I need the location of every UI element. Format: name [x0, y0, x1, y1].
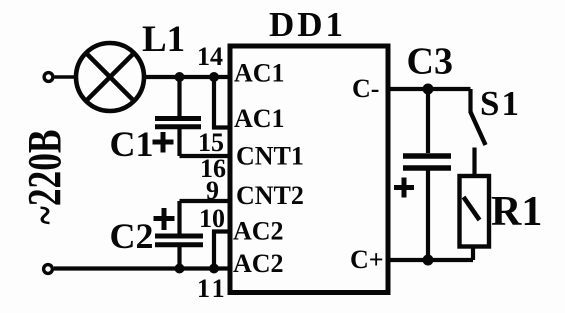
svg-text:C2: C2 [110, 216, 154, 256]
capacitor C1 [177, 77, 181, 116]
switch S1 [468, 89, 472, 113]
junction node bottom A [175, 264, 185, 274]
svg-text:C+: C+ [350, 245, 384, 274]
svg-text:L1: L1 [142, 19, 185, 60]
svg-text:9: 9 [206, 176, 219, 205]
svg-text:AC2: AC2 [233, 217, 284, 246]
junction node top A [175, 72, 185, 82]
svg-text:CNT1: CNT1 [236, 142, 304, 171]
IC DD1 body [230, 46, 388, 293]
wire C+ output [388, 258, 473, 262]
svg-text:C-: C- [352, 74, 379, 103]
terminal X2 bottom [44, 265, 53, 274]
svg-text:~220B: ~220B [19, 130, 72, 225]
junction node top B [209, 72, 219, 82]
junction node C3 top [423, 84, 434, 95]
svg-text:11: 11 [197, 274, 228, 303]
svg-text:AC1: AC1 [234, 104, 285, 133]
junction node bottom B [209, 264, 219, 274]
junction node C3 bottom [423, 255, 434, 266]
wire pin15 branch [214, 77, 230, 128]
C2 plus sign [154, 216, 175, 221]
svg-text:C3: C3 [407, 41, 453, 83]
wire pin10 branch [214, 232, 230, 269]
wire CNT2 pin9 [180, 199, 231, 203]
svg-text:S1: S1 [480, 84, 521, 123]
svg-text:CNT2: CNT2 [236, 181, 304, 210]
wire CNT1 pin16 [180, 154, 231, 158]
wire lamp to IC pin 14 (AC1) [144, 75, 230, 79]
svg-text:14: 14 [197, 42, 223, 71]
wire terminal to lamp [55, 75, 76, 79]
C3 plus sign [394, 185, 414, 190]
svg-text:DD1: DD1 [269, 5, 346, 44]
svg-text:10: 10 [199, 204, 225, 233]
capacitor C3 [426, 89, 430, 153]
resistor R1 [460, 176, 490, 247]
wire C- output [388, 87, 471, 91]
wire bottom to IC pin 11 (AC2) [54, 266, 230, 270]
lamp L1 [76, 43, 144, 111]
svg-text:15: 15 [198, 128, 224, 157]
svg-text:R1: R1 [491, 189, 542, 235]
svg-text:AC2: AC2 [233, 249, 284, 278]
capacitor C2 [177, 201, 181, 234]
svg-text:AC1: AC1 [234, 59, 285, 88]
svg-text:C1: C1 [110, 124, 154, 164]
terminal X1 top [44, 73, 53, 82]
C1 plus sign [153, 140, 174, 145]
